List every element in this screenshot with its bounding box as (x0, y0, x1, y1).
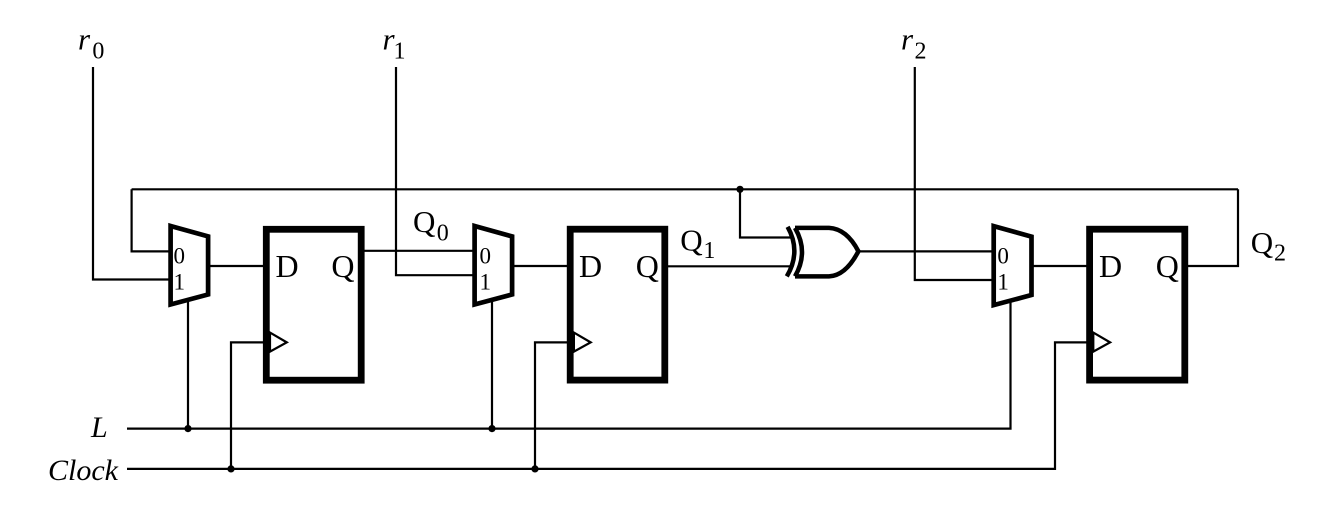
multiplexer MUX2 (475, 226, 512, 305)
wire feedback left drop to mux1 input 0 (132, 189, 171, 251)
wire feedback tap down to XOR top input (740, 189, 792, 237)
flip-flop FF2 body (570, 229, 665, 380)
wire mux1 output to FF1 D (208, 265, 266, 267)
svg-text:Q: Q (636, 248, 659, 284)
svg-text:r: r (901, 21, 914, 56)
svg-text:0: 0 (479, 244, 491, 269)
wire Clock line with rise to FF3 clock (127, 342, 1090, 469)
svg-text:Q: Q (413, 204, 435, 239)
wire FF2 Q to XOR input (node Q1) (665, 265, 790, 267)
svg-text:Q: Q (1251, 225, 1273, 260)
svg-text:Q: Q (331, 248, 354, 284)
wire FF1 Q to mux2 input 0 (node Q0) (361, 250, 474, 252)
clock wedge FF1 (270, 333, 287, 352)
flip-flop FF1 body (266, 229, 361, 380)
wire mux3 output to FF3 D (1032, 265, 1090, 267)
XOR gate U1 (787, 227, 859, 277)
wire r2 input (915, 67, 994, 280)
wire L line with rise to mux3 select (127, 301, 1011, 429)
svg-text:Q: Q (1156, 248, 1179, 284)
svg-text:L: L (90, 411, 108, 444)
wire feedback top (132, 188, 1238, 190)
svg-text:D: D (276, 248, 299, 284)
multiplexer MUX1 (171, 226, 209, 305)
svg-text:1: 1 (997, 270, 1009, 295)
svg-text:2: 2 (1274, 241, 1286, 267)
wire mux2 select down to L (491, 300, 493, 429)
junction dot on feedback at XOR tap (736, 186, 743, 193)
junction dot on L at mux2 select (488, 425, 495, 432)
svg-text:1: 1 (394, 39, 406, 65)
wire mux1 select down to L (187, 300, 189, 429)
svg-text:0: 0 (92, 39, 104, 65)
wire r0 input (93, 67, 171, 280)
flip-flop FF3 body (1090, 229, 1185, 380)
svg-text:r: r (78, 21, 91, 56)
multiplexer MUX3 (994, 226, 1032, 305)
wire XOR output to mux3 input 0 (858, 250, 993, 252)
svg-text:1: 1 (479, 270, 491, 295)
svg-text:Clock: Clock (48, 454, 119, 487)
junction dot on Clock at FF2 (531, 465, 538, 472)
svg-text:D: D (579, 248, 602, 284)
svg-text:0: 0 (437, 221, 449, 247)
svg-text:1: 1 (173, 270, 185, 295)
clock wedge FF3 (1093, 333, 1110, 352)
clock wedge FF2 (574, 333, 591, 352)
svg-text:1: 1 (703, 238, 715, 264)
svg-text:0: 0 (173, 244, 185, 269)
wire FF3 Q up to feedback (node Q2) (1185, 189, 1238, 266)
svg-text:D: D (1099, 248, 1122, 284)
svg-text:2: 2 (915, 39, 927, 65)
svg-text:Q: Q (680, 222, 702, 257)
wire mux2 output to FF2 D (512, 265, 570, 267)
wire FF1 clock from Clock line (231, 342, 266, 469)
wire r1 input (396, 67, 475, 275)
svg-text:0: 0 (997, 244, 1009, 269)
wire FF2 clock from Clock line (535, 342, 570, 469)
junction dot on Clock at FF1 (227, 465, 234, 472)
junction dot on L at mux1 select (184, 425, 191, 432)
